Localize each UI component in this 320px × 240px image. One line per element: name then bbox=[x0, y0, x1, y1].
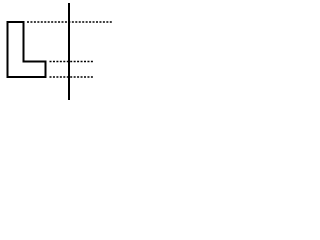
dotted projection line bottom bbox=[50, 76, 94, 78]
dotted projection line middle bbox=[50, 61, 94, 63]
L-shaped polygon bbox=[8, 22, 46, 77]
mirror line (vertical axis) bbox=[68, 3, 70, 100]
dotted projection line top bbox=[27, 21, 112, 23]
